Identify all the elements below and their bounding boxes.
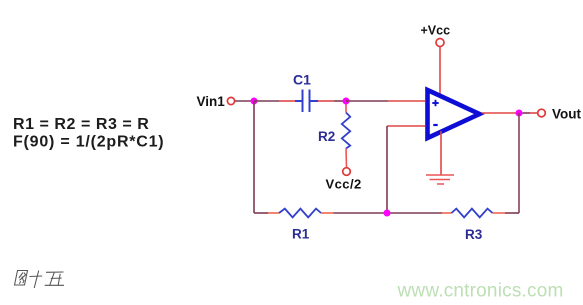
wire node A to C1 (dark part)	[254, 100, 279, 102]
svg-text:C1: C1	[293, 72, 311, 88]
R1 lead right	[321, 212, 334, 214]
svg-text:www.cntronics.com: www.cntronics.com	[397, 281, 564, 302]
wire C1 to node B (red part)	[318, 100, 334, 102]
svg-text:Vout: Vout	[552, 107, 581, 122]
op-amp U1	[428, 90, 480, 138]
wire node C to Vout terminal (red part)	[530, 112, 538, 114]
R1 lead left	[268, 212, 279, 214]
wire node C to Vout terminal (dark part)	[523, 112, 531, 114]
terminal Vin1	[227, 97, 234, 104]
svg-text:Vcc/2: Vcc/2	[326, 177, 362, 192]
svg-text:R1 = R2 = R3 = R: R1 = R2 = R3 = R	[13, 116, 149, 133]
node C	[516, 110, 523, 117]
R2 lead top	[345, 105, 347, 113]
wire bottom rail right	[505, 212, 519, 214]
svg-text:R3: R3	[465, 227, 483, 242]
capacitor C1	[295, 90, 318, 113]
wire to C1 (red part)	[279, 100, 295, 102]
图	[15, 271, 28, 286]
wire - input feedback vertical	[386, 126, 388, 213]
wire node C down to bottom rail	[518, 113, 520, 213]
wire left vertical from node A	[253, 101, 255, 213]
svg-text:R2: R2	[318, 129, 335, 144]
ground	[426, 175, 454, 184]
wire op-amp + input (red part)	[388, 100, 425, 102]
svg-text:Vin1: Vin1	[197, 94, 226, 109]
R3 lead left	[442, 212, 452, 214]
wire node B to op-amp + input	[346, 100, 388, 102]
node D	[384, 210, 391, 217]
resistor R2	[342, 113, 350, 149]
五	[45, 272, 64, 285]
svg-text:F(90) = 1/(2pR*C1): F(90) = 1/(2pR*C1)	[13, 134, 164, 151]
resistor R3	[452, 209, 493, 218]
node A	[251, 98, 258, 105]
wire Vin1 terminal to node A	[235, 100, 254, 102]
node B	[343, 98, 350, 105]
terminal Vcc/2	[343, 168, 351, 176]
terminal Vout	[538, 109, 546, 117]
R3 lead right	[493, 212, 506, 214]
wire C1 to node B (dark part)	[334, 100, 346, 102]
svg-text:R1: R1	[292, 227, 310, 242]
wire op-amp to ground	[440, 131, 442, 175]
wire bottom rail left	[254, 212, 268, 214]
十	[30, 271, 43, 289]
R2 lead bottom	[345, 149, 348, 168]
wire op-amp output	[482, 112, 516, 114]
resistor R1	[279, 209, 321, 218]
svg-text:+Vcc: +Vcc	[421, 24, 451, 38]
wire bottom rail middle	[334, 212, 443, 214]
caption 图十五 (drawn glyphs)	[15, 271, 65, 289]
wire +Vcc to op-amp	[439, 47, 441, 96]
terminal +Vcc	[436, 39, 444, 47]
wire op-amp - input (red part)	[387, 125, 425, 127]
